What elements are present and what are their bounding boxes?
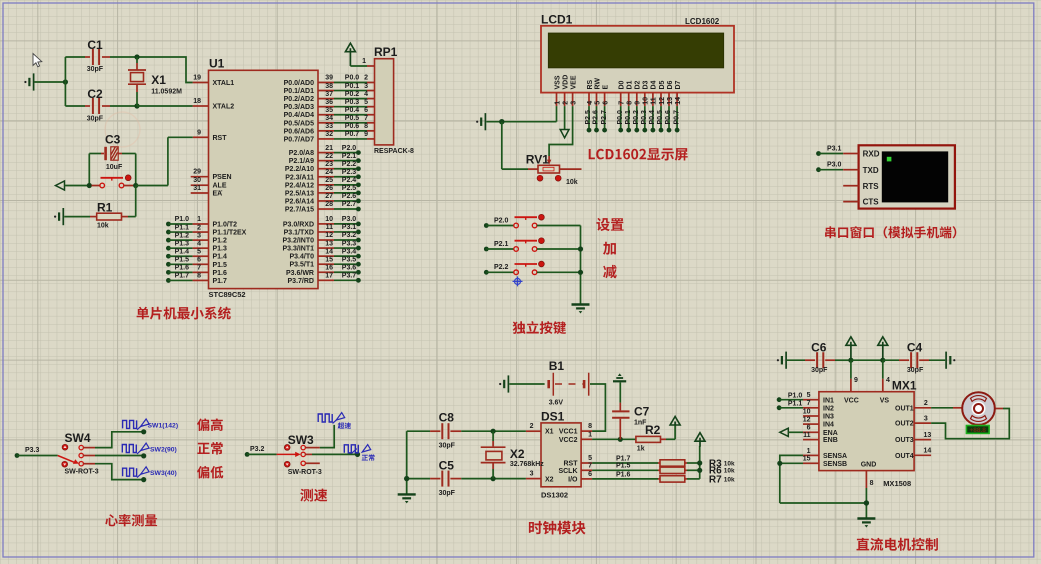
svg-text:23: 23 [325, 161, 333, 168]
svg-text:P3.3: P3.3 [25, 447, 40, 454]
RTS stub [843, 185, 858, 187]
svg-text:7: 7 [807, 400, 811, 407]
svg-text:VCC: VCC [844, 398, 859, 405]
svg-text:X2: X2 [510, 447, 525, 461]
label 减 [603, 265, 617, 278]
power terminal above VS [878, 337, 888, 360]
svg-text:ENA: ENA [823, 430, 838, 437]
svg-text:VCC2: VCC2 [559, 437, 578, 444]
pulse source 超速 [318, 413, 351, 429]
battery B1 3.6V [509, 359, 588, 407]
svg-text:1k: 1k [637, 445, 645, 452]
node P3.0 to TXD [816, 162, 859, 173]
svg-text:P2.0/A8: P2.0/A8 [289, 150, 314, 157]
MX1 pin 8 GND wire [864, 471, 874, 518]
svg-text:P3.7/RD: P3.7/RD [288, 278, 314, 285]
svg-text:5: 5 [594, 101, 601, 105]
svg-text:4: 4 [364, 91, 368, 98]
U1 pin 14 P3.4 wire and node [289, 248, 360, 260]
svg-text:P1.3: P1.3 [175, 240, 190, 247]
svg-text:5: 5 [364, 99, 368, 106]
svg-text:P1.4: P1.4 [175, 248, 190, 255]
svg-text:P2.2: P2.2 [342, 161, 357, 168]
svg-text:P2.7/A15: P2.7/A15 [285, 207, 314, 214]
svg-text:ALE: ALE [213, 183, 227, 190]
LCD wire node P0.2 [633, 106, 640, 132]
svg-text:P0.7: P0.7 [673, 110, 680, 125]
svg-text:12: 12 [325, 232, 333, 239]
LCD pin 10 D3 stub [643, 80, 650, 106]
wire SENSA/SENSB loop [777, 455, 866, 503]
resistor R6 10k [658, 466, 735, 477]
wire B1 to VCC1 [590, 384, 605, 431]
svg-text:3: 3 [530, 470, 534, 477]
node junction RV1 rail [499, 119, 504, 124]
LCD pin 7 D0 stub [619, 80, 626, 106]
svg-text:10uF: 10uF [106, 164, 123, 171]
svg-text:C8: C8 [439, 411, 455, 425]
svg-text:13: 13 [667, 97, 674, 105]
wire VSS to ground [486, 106, 556, 122]
label 设置 [596, 218, 623, 231]
svg-text:P2.1/A9: P2.1/A9 [289, 158, 314, 165]
svg-text:5: 5 [588, 455, 592, 462]
svg-text:SW2(90): SW2(90) [150, 446, 177, 453]
U1 pin 39 P0.0 wire to RP1 pin 2 [284, 75, 375, 87]
mouse cursor [33, 54, 42, 67]
capacitor C3 10uF electrolytic [89, 133, 135, 172]
svg-text:P2.4/A12: P2.4/A12 [285, 182, 314, 189]
svg-text:2: 2 [530, 423, 534, 430]
svg-text:P2.6/A14: P2.6/A14 [285, 198, 314, 205]
svg-text:P3.5/T1: P3.5/T1 [289, 262, 314, 269]
svg-text:MX1: MX1 [892, 379, 917, 393]
svg-text:P0.2: P0.2 [345, 91, 360, 98]
svg-text:STC89C52: STC89C52 [209, 290, 246, 299]
svg-text:26: 26 [325, 185, 333, 192]
svg-text:C7: C7 [634, 405, 650, 419]
U1 pin 23 P2.2 wire and node [285, 161, 361, 173]
svg-text:P2.6: P2.6 [593, 110, 600, 125]
svg-text:RST: RST [564, 461, 579, 468]
U1 pin 29 PSEN [191, 169, 232, 182]
svg-text:6: 6 [197, 257, 201, 264]
svg-text:P2.1: P2.1 [342, 153, 357, 160]
svg-text:24: 24 [325, 169, 333, 176]
U1 pin 34 P0.5 wire to RP1 pin 7 [284, 115, 375, 127]
power bar terminal left of C1 [24, 73, 33, 90]
svg-text:P3.0/RXD: P3.0/RXD [283, 221, 314, 228]
svg-text:P0.0: P0.0 [345, 75, 360, 82]
svg-text:P0.6: P0.6 [665, 110, 672, 125]
resistor R3 10k [658, 458, 735, 469]
DS1 pin 8 VCC1 stub [581, 423, 592, 431]
U1 pin 35 P0.4 wire to RP1 pin 6 [284, 107, 375, 119]
crystal X1 11.0592M [128, 54, 182, 108]
svg-text:4: 4 [587, 101, 594, 105]
LCD wire node P0.5 [657, 106, 664, 132]
wire C3 right leg down [135, 154, 137, 186]
svg-text:X1: X1 [151, 73, 166, 87]
CTS stub [843, 201, 858, 203]
LCD pin 1 VSS stub [554, 75, 561, 106]
wire XTAL1 to C1/X1 node [137, 57, 193, 83]
svg-text:1: 1 [362, 58, 366, 65]
U1 pin 19 XTAL1 [193, 75, 235, 88]
svg-text:P3.2: P3.2 [342, 232, 357, 239]
wire button common bus [578, 226, 583, 304]
ic MX1 MX1508 body [819, 379, 917, 489]
svg-text:30pF: 30pF [439, 442, 456, 449]
RP1 pin 1 wire [350, 58, 374, 66]
svg-text:12: 12 [803, 417, 811, 424]
label 偏低 [197, 466, 223, 479]
svg-text:VCC1: VCC1 [559, 429, 578, 436]
svg-text:10: 10 [325, 216, 333, 223]
ground under buttons [572, 305, 590, 314]
push button P2.2 [484, 261, 581, 275]
svg-text:D5: D5 [659, 80, 666, 89]
svg-text:P3.3: P3.3 [342, 240, 357, 247]
svg-text:P0.6: P0.6 [345, 123, 360, 130]
label 偏高 [197, 418, 223, 431]
svg-text:P3.7: P3.7 [342, 273, 357, 280]
svg-text:SENSA: SENSA [823, 453, 847, 460]
output terminal arrow left of reset button [56, 181, 90, 190]
wire VEE to RV1 wiper [547, 106, 573, 165]
svg-text:D4: D4 [651, 80, 658, 89]
U1 pin 38 P0.1 wire to RP1 pin 3 [284, 83, 375, 95]
svg-text:39: 39 [325, 75, 333, 82]
wire pullup bus [697, 446, 702, 479]
svg-text:2: 2 [924, 400, 928, 407]
svg-text:GND: GND [861, 461, 877, 468]
svg-text:P1.0: P1.0 [175, 216, 190, 223]
MX1 pin 6 ENA stub [803, 425, 838, 437]
svg-text:P1.5: P1.5 [616, 463, 631, 470]
MX1 pin 12 IN4 stub [803, 417, 834, 429]
push button P2.0 [484, 214, 581, 228]
svg-text:X1: X1 [545, 429, 554, 436]
svg-text:IN4: IN4 [823, 422, 834, 429]
svg-text:I/O: I/O [568, 476, 578, 483]
U1 pin 30 ALE [191, 177, 227, 190]
svg-text:DS1302: DS1302 [541, 491, 568, 500]
svg-text:P1.7: P1.7 [175, 273, 190, 280]
svg-text:14: 14 [675, 97, 682, 105]
svg-text:C4: C4 [907, 341, 923, 355]
svg-text:29: 29 [193, 169, 201, 176]
svg-text:8: 8 [627, 101, 634, 105]
svg-text:P1.2: P1.2 [213, 238, 228, 245]
svg-text:PSEN: PSEN [213, 174, 232, 181]
svg-text:P1.1: P1.1 [175, 224, 190, 231]
svg-text:P0.2: P0.2 [633, 110, 640, 125]
rotary switch SW3 [277, 433, 322, 476]
LCD pin 5 RW stub [594, 78, 601, 107]
wire SW4 throw1 to SW1 source [83, 432, 143, 448]
svg-text:P3.1: P3.1 [827, 145, 842, 152]
svg-text:33: 33 [325, 123, 333, 130]
svg-text:18: 18 [193, 98, 201, 105]
U1 pin 22 P2.1 wire and node [289, 153, 361, 165]
svg-text:10k: 10k [97, 223, 109, 230]
svg-text:P3.0: P3.0 [342, 216, 357, 223]
ground under MX1 [857, 519, 875, 528]
LCD pin 12 D5 stub [659, 80, 666, 106]
svg-text:10k: 10k [566, 179, 578, 186]
svg-text:R7: R7 [709, 474, 722, 485]
label 心率测量 [105, 514, 157, 526]
svg-text:P3.4/T0: P3.4/T0 [289, 254, 314, 261]
svg-text:6: 6 [364, 107, 368, 114]
svg-text:D1: D1 [627, 80, 634, 89]
svg-text:9: 9 [635, 101, 642, 105]
svg-text:E: E [602, 85, 609, 90]
node VCC junction [848, 358, 853, 363]
svg-text:4: 4 [886, 377, 890, 384]
LCD wire node P0.1 [625, 106, 632, 132]
svg-text:SCLK: SCLK [558, 468, 577, 475]
label 测速 [300, 489, 327, 502]
DS1 pin 7 wire P1.5 to resistor R6 [581, 462, 658, 470]
svg-text:P1.5: P1.5 [213, 262, 228, 269]
motor speed display [966, 426, 989, 434]
svg-text:6: 6 [807, 425, 811, 432]
LCD wire node P0.6 [665, 106, 672, 132]
svg-text:12: 12 [659, 97, 666, 105]
capacitor C2 30pF [65, 87, 137, 123]
svg-text:SW-ROT-3: SW-ROT-3 [65, 468, 99, 475]
capacitor C1 30pF [65, 38, 137, 73]
pulse source SW3(40) [123, 467, 177, 482]
power terminal above RP1 [345, 43, 355, 66]
svg-text:7: 7 [588, 462, 592, 469]
ground left of clock [398, 494, 416, 503]
U1 pin 2 P1.1 wire and node [166, 224, 247, 236]
svg-text:IN1: IN1 [823, 397, 834, 404]
svg-text:P1.6: P1.6 [616, 471, 631, 478]
svg-text:19: 19 [193, 75, 201, 82]
svg-text:P0.4: P0.4 [345, 107, 360, 114]
svg-text:P2.0: P2.0 [342, 145, 357, 152]
MX1 pin 3 OUT2 wire to motor [895, 409, 1009, 439]
svg-text:P2.2/A10: P2.2/A10 [285, 166, 314, 173]
LCD pin 3 VEE stub [570, 75, 577, 106]
MX1 pin 15 SENSB stub [803, 456, 847, 468]
svg-text:1: 1 [197, 216, 201, 223]
svg-text:P2.7: P2.7 [601, 110, 608, 125]
svg-text:2: 2 [364, 75, 368, 82]
svg-text:P3.2/INT0: P3.2/INT0 [282, 238, 314, 245]
svg-text:P1.0: P1.0 [788, 393, 803, 400]
svg-text:P0.5: P0.5 [345, 115, 360, 122]
wire SW3 throw1 to 超速 source [305, 425, 334, 448]
svg-text:EA: EA [213, 191, 223, 198]
svg-text:P0.7/AD7: P0.7/AD7 [284, 136, 314, 143]
svg-text:9: 9 [854, 377, 858, 384]
svg-text:P1.3: P1.3 [213, 246, 228, 253]
svg-text:P1.5: P1.5 [175, 257, 190, 264]
svg-text:RST: RST [213, 135, 228, 142]
svg-text:LCD1: LCD1 [541, 13, 573, 27]
capacitor C7 1nF [612, 383, 650, 442]
svg-text:21: 21 [325, 145, 333, 152]
U1 pin 36 P0.3 wire to RP1 pin 5 [284, 99, 375, 111]
U1 pin 37 P0.2 wire to RP1 pin 4 [284, 91, 375, 103]
svg-text:15: 15 [803, 456, 811, 463]
U1 pin 15 P3.5 wire and node [289, 256, 360, 268]
LCD pin 2 VDD stub [562, 75, 569, 106]
resistor R7 10k [658, 474, 735, 485]
motor M [962, 392, 995, 425]
svg-text:P1.2: P1.2 [175, 232, 190, 239]
U1 pin 6 P1.5 wire and node [166, 257, 227, 269]
svg-text:16: 16 [325, 264, 333, 271]
svg-text:P3.4: P3.4 [342, 248, 357, 255]
label 正常 [197, 442, 222, 455]
svg-text:VEE: VEE [570, 75, 577, 89]
svg-text:9: 9 [364, 131, 368, 138]
svg-text:6: 6 [602, 101, 609, 105]
LCD wire node P2.6 [593, 106, 600, 132]
svg-text:28: 28 [325, 201, 333, 208]
label 单片机最小系统 [137, 307, 231, 320]
U1 pin 7 P1.6 wire and node [166, 265, 227, 277]
U1 pin 28 P2.7 wire and node [285, 201, 361, 213]
U1 pin 25 P2.4 wire and node [285, 177, 361, 189]
svg-text:TXD: TXD [863, 166, 879, 175]
svg-text:22: 22 [325, 153, 333, 160]
label 直流电机控制 [857, 538, 938, 551]
lcd LCD1 body [541, 13, 734, 93]
U1 pin 10 P3.0 wire and node [283, 216, 361, 228]
label LCD1602显示屏 [589, 148, 688, 161]
svg-text:15: 15 [325, 256, 333, 263]
MX1 pin 5 IN1 stub [803, 392, 834, 404]
svg-text:P0.3/AD3: P0.3/AD3 [284, 104, 314, 111]
node P3.2 [245, 446, 277, 457]
label 时钟模块 [529, 521, 586, 535]
MX1 pin 9 VCC wire [851, 360, 858, 392]
U1 pin 17 P3.7 wire and node [288, 273, 361, 285]
svg-text:P2.1: P2.1 [494, 241, 509, 248]
rotary switch SW4 [58, 431, 99, 475]
LCD pin 6 E stub [602, 85, 609, 107]
svg-text:X2: X2 [545, 476, 554, 483]
svg-text:P0.0/AD0: P0.0/AD0 [284, 80, 314, 87]
svg-text:P3.6: P3.6 [342, 264, 357, 271]
U1 pin 33 P0.6 wire to RP1 pin 8 [284, 123, 375, 135]
svg-text:P2.2: P2.2 [494, 264, 509, 271]
svg-text:8: 8 [364, 123, 368, 130]
DS1 pin 1 VCC2 stub [581, 431, 636, 439]
DS1 pin 5 wire P1.7 to resistor R3 [581, 455, 658, 463]
svg-text:30pF: 30pF [87, 66, 104, 73]
svg-text:P3.0: P3.0 [827, 162, 842, 169]
svg-text:10k: 10k [724, 476, 735, 483]
svg-text:P3.6/WR: P3.6/WR [286, 270, 314, 277]
svg-text:SW4: SW4 [65, 431, 91, 445]
svg-text:38: 38 [325, 83, 333, 90]
LCD wire node P2.7 [601, 106, 608, 132]
svg-text:C5: C5 [439, 459, 455, 473]
svg-text:RW: RW [594, 78, 601, 90]
svg-text:3: 3 [364, 83, 368, 90]
capacitor C4 30pF [883, 341, 945, 374]
U1 pin 11 P3.1 wire and node [284, 224, 361, 236]
wire SW4 throw2 to SW2 source [83, 455, 143, 457]
svg-text:3: 3 [197, 232, 201, 239]
power terminal above pullup bus [695, 433, 705, 447]
potentiometer RV1 10k [502, 122, 582, 186]
capacitor C5 30pF [407, 459, 526, 497]
ic U1 STC89C52 body [209, 57, 319, 300]
svg-text:P0.5: P0.5 [657, 110, 664, 125]
svg-text:RTS: RTS [863, 182, 880, 191]
svg-text:P0.5/AD5: P0.5/AD5 [284, 120, 314, 127]
svg-text:30pF: 30pF [811, 367, 828, 374]
svg-text:25: 25 [325, 177, 333, 184]
svg-text:ENB: ENB [823, 437, 838, 444]
DS1 pin 3 X2 stub [526, 470, 541, 478]
wire left rail to ground [404, 431, 409, 494]
svg-text:1: 1 [807, 448, 811, 455]
watermark circle [105, 112, 140, 147]
svg-text:30pF: 30pF [87, 116, 104, 123]
svg-text:P0.1: P0.1 [345, 83, 360, 90]
svg-text:10: 10 [803, 408, 811, 415]
svg-text:7: 7 [619, 101, 626, 105]
resistor R2 1k [636, 423, 675, 452]
svg-text:14: 14 [924, 448, 932, 455]
LCD wire node P0.0 [617, 106, 624, 132]
svg-text:P0.4: P0.4 [649, 110, 656, 125]
MX1 pin 7 IN2 stub [803, 400, 834, 412]
capacitor C8 30pF [407, 411, 526, 450]
svg-text:31: 31 [193, 185, 201, 192]
svg-text:P1.4: P1.4 [213, 254, 228, 261]
svg-text:P0.7: P0.7 [345, 131, 360, 138]
crystal X2 32.768kHz [481, 429, 545, 482]
label 加 [603, 242, 616, 255]
capacitor C6 30pF [787, 341, 851, 374]
LCD pin 9 D2 stub [635, 80, 642, 106]
svg-text:6: 6 [588, 471, 592, 478]
svg-text:4: 4 [197, 240, 201, 247]
svg-text:IN2: IN2 [823, 405, 834, 412]
U1 pin 9 RST [193, 129, 227, 142]
ic DS1 DS1302 body [541, 410, 581, 500]
svg-text:P0.3: P0.3 [641, 110, 648, 125]
svg-text:P2.0: P2.0 [494, 217, 509, 224]
svg-text:SW1(142): SW1(142) [148, 422, 179, 429]
svg-text:5: 5 [197, 248, 201, 255]
svg-text:P2.4: P2.4 [342, 177, 357, 184]
node junction at crystal left rail [63, 57, 68, 106]
U1 pin 21 P2.0 wire and node [289, 145, 361, 157]
svg-text:P0.2/AD2: P0.2/AD2 [284, 96, 314, 103]
resistor pack RP1 [374, 45, 414, 155]
U1 pin 27 P2.6 wire and node [285, 193, 361, 205]
svg-text:P1.7: P1.7 [616, 455, 631, 462]
svg-text:D7: D7 [675, 80, 682, 89]
svg-text:P2.5/A13: P2.5/A13 [285, 190, 314, 197]
svg-text:C2: C2 [87, 87, 103, 101]
wire XTAL2 net [137, 105, 193, 107]
svg-text:P2.3: P2.3 [342, 169, 357, 176]
svg-text:+88.8: +88.8 [969, 427, 986, 434]
